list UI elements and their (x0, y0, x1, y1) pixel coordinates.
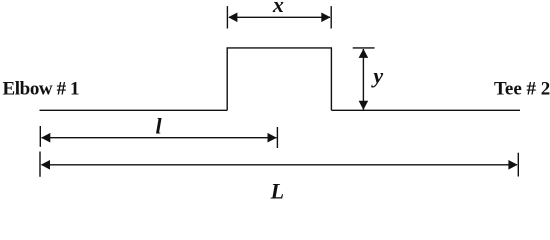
svg-text:Tee # 2: Tee # 2 (494, 79, 550, 100)
svg-text:L: L (270, 178, 284, 203)
svg-text:Elbow # 1: Elbow # 1 (3, 79, 80, 100)
svg-text:l: l (156, 114, 163, 139)
svg-text:x: x (272, 0, 284, 17)
